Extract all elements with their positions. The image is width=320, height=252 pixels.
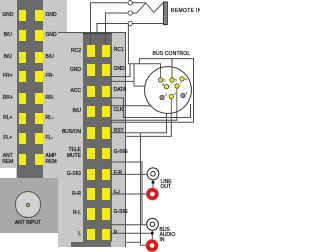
DIN socket BUS CONTROL outline	[145, 67, 192, 114]
pin CN1-4B	[35, 71, 43, 82]
label CN2-8 left: R-R	[58, 192, 81, 197]
DIN pin 3	[160, 95, 164, 99]
pin CN2-4A	[87, 106, 95, 118]
pin CN2-1B	[102, 45, 111, 57]
wire F-R to LINE OUT white jack	[110, 173, 147, 175]
ANT INPUT housing	[0, 178, 58, 234]
pin CN2-10A	[87, 229, 95, 241]
wire F-L to LINE OUT red jack	[110, 193, 146, 195]
white notch left of CN1 strip bottom	[0, 168, 16, 178]
label CN1-6 right: RL-	[46, 116, 54, 121]
wire RC2 pin to remote tip contact	[91, 3, 128, 45]
pin CN2-3A	[87, 86, 95, 98]
DIN pin 8	[164, 84, 168, 88]
label CN2-3 left: ACC	[58, 89, 81, 94]
label LINE OUT	[161, 180, 172, 190]
label CN2-4 right: CLK	[114, 108, 124, 113]
pin CN2-2B	[102, 64, 111, 76]
wire DIN pin 8 to RST row	[110, 99, 167, 133]
label CN2-6 right: G-SIG	[114, 150, 128, 155]
pin CN2-7A	[87, 169, 95, 181]
label CN1-2 left: B/U	[0, 33, 16, 38]
pin CN2-3B	[102, 86, 111, 98]
label CN2-1 left: RC2	[58, 49, 81, 54]
label CN1-7 left: FL+	[0, 136, 16, 141]
label CN2-4 left: B/U	[58, 109, 81, 114]
wire R row exit	[126, 241, 140, 243]
LINE OUT white RCA jack	[147, 168, 159, 180]
remote jack contact R	[128, 11, 132, 15]
label CN2-1 right: RC1	[114, 48, 124, 53]
pin CN1-8B	[35, 154, 43, 165]
pin CN2-8B	[102, 188, 111, 200]
pin CN1-7A	[19, 133, 27, 144]
label CN1-4 right: FR-	[46, 74, 54, 79]
label CN2-10 right: R	[114, 231, 118, 236]
pin CN1-3A	[19, 52, 27, 63]
pin CN1-1A	[19, 10, 27, 21]
wire LINE OUT jack link	[152, 180, 154, 188]
wire DIN pin 2 return	[126, 99, 171, 137]
wire pin1 lead (over circle)	[190, 104, 192, 110]
label CN2-2 left: GND	[58, 68, 81, 73]
label CN1-1 right: GND	[46, 13, 57, 18]
junction dot LINE OUT	[152, 181, 155, 184]
connector CN1 left harness body (label panel)	[0, 0, 67, 178]
ANT INPUT jack circle	[15, 191, 42, 218]
label CN2-9 left: R-L	[58, 211, 81, 216]
pin CN2-4B	[102, 106, 111, 118]
junction dot BUS AUDIO	[151, 232, 154, 235]
pin CN1-3B	[35, 52, 43, 63]
label CN2-9 right: G-SIG	[114, 210, 128, 215]
label CN1-2 right: GND	[46, 33, 57, 38]
wire shield to remote sleeve contact	[97, 24, 128, 34]
label CN1-7 right: FL-	[46, 136, 54, 141]
label CN1-8 left: ANT/REM	[0, 154, 16, 165]
connector CN1 contact strip	[17, 0, 44, 178]
wire G-SIG to BUS AUDIO white jack	[110, 224, 146, 226]
connector CN2 strip base	[71, 242, 111, 247]
label BUS AUDIO IN	[160, 228, 176, 243]
DIN pin 5	[170, 78, 174, 82]
DIN pin 4	[180, 77, 184, 81]
pin CN1-2A	[19, 30, 27, 41]
label CN2-6 left: TELE/MUTE	[58, 148, 81, 159]
wire drop to BUS AUDIO red jack	[141, 133, 146, 246]
wire remote ring zigzag	[133, 3, 146, 13]
wire remote sleeve drop to GND junction	[127, 24, 129, 64]
pin CN1-6A	[19, 113, 27, 124]
remote jack contact T	[128, 1, 132, 5]
wire pin6 lead (over circle)	[160, 68, 162, 80]
wire DIN pin 5 lead	[171, 59, 173, 80]
pin CN2-10B	[102, 229, 111, 241]
label CN1-3 right: B/U	[46, 55, 54, 60]
BUS AUDIO red RCA jack	[146, 239, 158, 251]
label CN2-5 right: RST	[114, 129, 124, 134]
label CN2-5 left: BUS/ON	[58, 130, 81, 135]
wire to DIN pin 3	[110, 100, 162, 105]
wire pin5 lead (over circle)	[171, 62, 173, 80]
DIN pin 6	[158, 78, 162, 82]
wire BUS CONTROL shield loop	[110, 59, 194, 123]
label CN1-8 right: AMP/REM	[46, 154, 57, 165]
label BUS CONTROL	[153, 52, 191, 57]
pin CN2-6B	[102, 148, 111, 160]
label CN2-7 right: F-R	[114, 171, 122, 176]
pin CN1-6B	[35, 113, 43, 124]
label CN1-3 left: B/U	[0, 55, 16, 60]
pin CN2-6A	[87, 148, 95, 160]
pin CN2-1A	[87, 45, 95, 57]
DIN pin 1	[181, 93, 185, 97]
wire GND exit up to bus junction	[110, 64, 130, 77]
remote jack contact S	[128, 21, 132, 25]
wire DATA to DIN pin 1 side	[110, 98, 191, 118]
wire RC1 pin to remote ring contact	[106, 13, 128, 45]
pin CN2-9B	[102, 208, 111, 220]
label CN2-7 left: G-SIG	[58, 172, 81, 177]
label CN1-4 left: FR+	[0, 74, 16, 79]
pin CN1-4A	[19, 71, 27, 82]
connector CN2 main unit panel	[58, 32, 126, 247]
pin CN2-5B	[102, 127, 111, 139]
pin CN1-8A	[19, 154, 27, 165]
remote plug body	[163, 2, 167, 25]
wire remote tip zigzag	[133, 3, 164, 13]
label CN2-3 right: DATA	[114, 88, 127, 93]
label CN1-1 left: GND	[0, 13, 16, 18]
LINE OUT red RCA jack	[146, 188, 158, 200]
wire exit to shell branch	[110, 80, 134, 82]
label CN1-5 left: RR+	[0, 96, 16, 101]
label CN2-10 left: L	[58, 232, 81, 237]
DIN pin 7	[175, 84, 179, 88]
pin CN2-2A	[87, 64, 95, 76]
pin CN1-2B	[35, 30, 43, 41]
pin CN1-7B	[35, 133, 43, 144]
label CN1-6 left: RL+	[0, 116, 16, 121]
pin CN2-9A	[87, 208, 95, 220]
label CN1-5 right: RR-	[46, 96, 55, 101]
label CN2-8 right: F-L	[114, 191, 122, 196]
label ANT INPUT	[8, 221, 48, 226]
wire R to BUS AUDIO junction	[110, 232, 151, 234]
wire remote sleeve	[133, 23, 164, 25]
wire pin7 lead (over circle)	[176, 89, 178, 112]
wire CLK to DIN pin 7	[110, 89, 177, 120]
DIN pin 2	[169, 94, 173, 98]
connector CN2 contact strip	[83, 33, 113, 242]
pin CN1-5B	[35, 93, 43, 104]
label REMOTE IN	[171, 9, 202, 14]
wire BUS AUDIO jack link	[151, 231, 153, 240]
BUS AUDIO white RCA jack	[147, 218, 159, 230]
ANT INPUT center contact	[26, 203, 30, 207]
wire GND junction to DIN pin 6	[128, 64, 160, 80]
pin CN2-7B	[102, 169, 111, 181]
pin CN2-8A	[87, 188, 95, 200]
pin CN1-5A	[19, 93, 27, 104]
pin CN2-5A	[87, 127, 95, 139]
wire G-SIG drop to BUS AUDIO white jack	[110, 162, 142, 225]
label CN2-2 right: GND	[114, 67, 125, 72]
wire pin2 lead (over circle)	[170, 99, 172, 115]
pin CN1-1B	[35, 10, 43, 21]
wire shell branch to DIN socket edge	[134, 64, 146, 86]
